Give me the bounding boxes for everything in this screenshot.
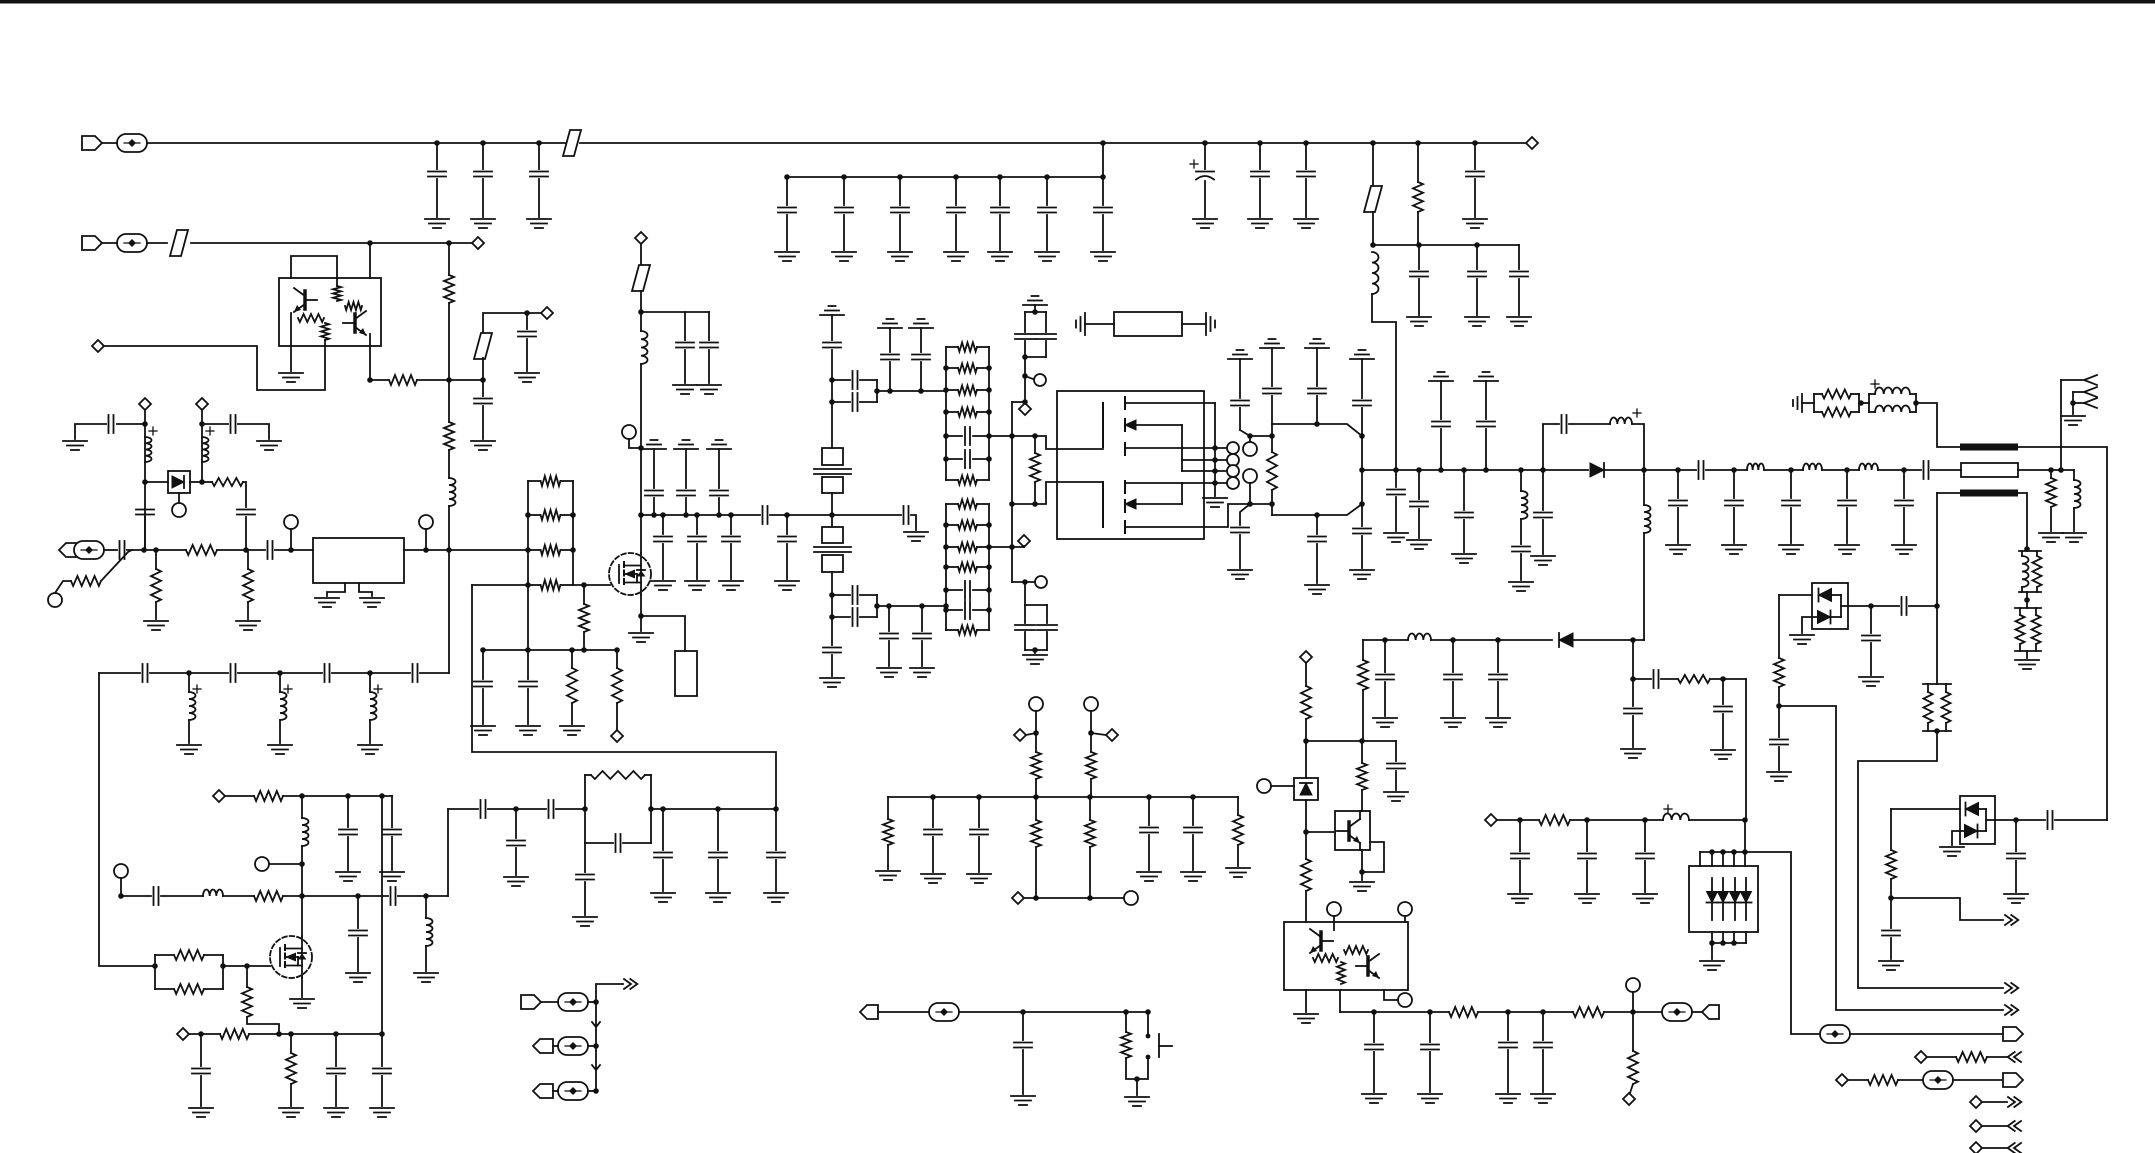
testpoint TP4 <box>929 1003 959 1021</box>
node diamond 202 <box>196 398 208 410</box>
resistor R-888 <box>883 819 893 845</box>
wireN a <box>640 244 642 265</box>
node rail2 diamond <box>472 237 484 249</box>
junction 302-864 <box>299 861 305 867</box>
node diamond 1976b <box>1970 1120 1982 1132</box>
wire 1036 stem t <box>1035 711 1037 752</box>
wire bus673 <box>99 672 140 674</box>
wire riser to cap bus <box>1102 143 1104 177</box>
inductor L-bypass <box>1610 417 1632 424</box>
wireZ 1374 stem <box>1373 1012 1375 1042</box>
junction 1012-436 <box>1009 433 1015 439</box>
resistor R-449b <box>444 422 454 450</box>
junction lad2l in 606 <box>943 603 949 609</box>
wire 1791 stem <box>1790 470 1792 498</box>
ground C-1023 <box>1011 1096 1035 1105</box>
wire bus470 b1 <box>1604 469 1696 471</box>
wireU c <box>1778 687 1780 737</box>
junction lad1r 515 <box>570 512 576 518</box>
wireAA 1046 <box>588 1045 596 1047</box>
ground C-1374 <box>1362 1094 1386 1103</box>
ground below C-pol-1205 <box>1193 219 1217 228</box>
junction lad2lR 547 <box>986 544 992 550</box>
wire bypass b <box>1569 423 1610 425</box>
U4 channel seg 521 <box>1124 521 1126 533</box>
capacitor C-1734 <box>1725 501 1743 506</box>
wireT b <box>1936 606 1938 684</box>
terminal circle 426 <box>419 515 433 529</box>
ground C-1464 <box>1452 554 1476 563</box>
component F-box <box>675 651 697 696</box>
connector tagA <box>860 1005 878 1019</box>
wireV 1385 gnd <box>1384 682 1386 716</box>
wire bypass c <box>1632 424 1644 470</box>
wire main f <box>404 549 449 551</box>
wireL 776 stem <box>775 809 777 850</box>
wireU d <box>1778 747 1780 770</box>
wireL 516 stem <box>515 809 517 838</box>
wireT d <box>2026 549 2028 551</box>
capacitor C-663 <box>654 853 672 858</box>
junction 1633-640 <box>1630 637 1636 643</box>
resistor R-1124 <box>1121 1032 1131 1058</box>
U4 mid tap 2 <box>1125 482 1182 484</box>
wire673 stem 370 <box>369 673 371 692</box>
wireL 718 gnd <box>717 860 719 891</box>
wireBB left gnd <box>887 845 889 869</box>
wire D1 circ <box>178 493 180 503</box>
junction 1543-1012 <box>1540 1009 1546 1015</box>
junction y380 x483 <box>480 377 486 383</box>
inductor L-1521 <box>1521 491 1528 519</box>
connector tagB <box>1702 1005 1719 1019</box>
wire 584 down <box>583 585 585 604</box>
wireEE pin 1734 <box>1733 852 1735 866</box>
ground below C-bus-787 <box>775 252 799 261</box>
junction 1317-424 <box>1314 421 1320 427</box>
inductor L-302 <box>302 818 309 846</box>
ground R-248 <box>236 621 260 630</box>
wireFF h <box>2055 819 2107 821</box>
resistor R-U5a <box>1313 954 1338 962</box>
resistor R-lad2u-480 <box>946 476 989 485</box>
wireO pairtop2 <box>860 379 877 381</box>
wireCC <box>1024 897 1124 899</box>
resistor R-BB-1036 <box>1031 820 1041 847</box>
wireV l <box>1362 690 1364 741</box>
ground C-650-528 <box>516 726 540 735</box>
resistor R-out <box>1267 452 1277 490</box>
wire capbus stem x1047 <box>1046 177 1048 205</box>
capacitor C-1779 <box>1770 740 1788 745</box>
junction 1385-640 <box>1382 637 1388 643</box>
wireFF a <box>1891 808 1960 810</box>
U4 channel seg 500 <box>1124 500 1126 512</box>
junction H right <box>220 963 226 969</box>
wireO 889 gnd <box>888 641 890 666</box>
junction top rail x1103 <box>1100 140 1106 146</box>
junction top rail x1475 <box>1472 140 1478 146</box>
junction K-201 <box>198 1031 204 1037</box>
capacitor C-718 <box>709 853 727 858</box>
capacitor C-483 <box>474 399 492 404</box>
wireL d <box>651 808 776 810</box>
wireO pairbot2 <box>860 401 877 403</box>
junction lad2uR 436 <box>986 433 992 439</box>
resistor R-1633 <box>1628 1051 1638 1084</box>
wire 1791 gnd <box>1790 508 1792 543</box>
resistor R-lad2l-567 <box>946 563 989 572</box>
junction main x426 <box>423 547 429 553</box>
diode D1 <box>172 476 184 488</box>
capacitor C-L-483 <box>481 800 486 818</box>
plus L-370 <box>374 685 382 693</box>
resistor R-291 <box>286 1053 296 1084</box>
crystal X3 lower <box>814 527 851 572</box>
wireO pair2bot2 <box>860 616 877 618</box>
wire 1734 gnd <box>1733 508 1735 543</box>
junction top rail x1373 <box>1370 140 1376 146</box>
ground-top 921 <box>909 319 933 328</box>
capacitor C-ser-1701 <box>1699 461 1704 479</box>
plus L-189 <box>193 685 201 693</box>
terminal circle 1091t <box>1084 697 1098 711</box>
connector J1 tag <box>82 136 102 150</box>
ground C-515d-663 <box>651 581 675 590</box>
ground C-BB-1193 <box>1181 872 1205 881</box>
diode D1 box <box>168 471 190 493</box>
wireGG4 <box>1982 1125 2007 1127</box>
node diamond 1921 <box>1915 1051 1927 1063</box>
wire449 b <box>448 303 450 380</box>
wireAA rail <box>595 1002 597 1091</box>
wire R riser upper <box>1417 143 1419 182</box>
wire lad2l right rail <box>988 504 990 630</box>
junction 1396-470 <box>1393 467 1399 473</box>
node diamond 183 <box>177 1028 189 1040</box>
winding W1 turn 1 <box>1227 442 1239 454</box>
ground C-718 <box>706 893 730 902</box>
wireI 358 stem <box>357 896 359 928</box>
node diamond 1018 <box>1012 892 1024 904</box>
zener D5 <box>1300 783 1312 795</box>
wire 1521 stem2 <box>1520 519 1522 544</box>
wireI 426 stem <box>425 896 427 918</box>
resistor R-1362b <box>1357 763 1367 790</box>
testpoint TPL2 <box>558 1037 588 1055</box>
junction 1779-706 <box>1776 703 1782 709</box>
junction L-718 <box>715 806 721 812</box>
wire bus470 a <box>1362 469 1588 471</box>
junction EE 1723 <box>1720 849 1726 855</box>
wire cp v1 <box>1024 312 1026 332</box>
resistor pair RP3 <box>2015 608 2041 651</box>
capacitor C-1260 <box>1251 172 1269 177</box>
wireZ 1023 stem <box>1022 1012 1024 1040</box>
wire to gnd x1260 <box>1259 179 1261 217</box>
wire gt 1240 b <box>1239 408 1241 430</box>
capacitor C-527 <box>518 332 536 337</box>
wireI d2 <box>398 895 448 897</box>
wire cp v4 <box>1045 341 1047 357</box>
wire 1240 gnd <box>1239 535 1241 568</box>
capacitor C-cpB <box>1036 334 1056 339</box>
junction U4w 471 <box>1212 468 1218 474</box>
capacitor C-1508 <box>1499 1043 1517 1048</box>
wireV 1498 gnd <box>1497 682 1499 716</box>
resistor R-gate <box>1030 453 1040 482</box>
diode D7b <box>1965 825 1978 838</box>
wire 1317 gnd <box>1316 544 1318 583</box>
wire 2074 down <box>2073 470 2075 480</box>
rail chevron 2 <box>592 1065 600 1070</box>
inductor L-1803 <box>1803 463 1822 470</box>
transistor Q-U2a <box>294 288 317 312</box>
wireGG1 b <box>1987 1056 2007 1058</box>
wireS e <box>1937 492 1960 494</box>
junction 832-617 <box>829 614 835 620</box>
ground C-392 <box>380 872 404 881</box>
junction 1023-1012 <box>1020 1009 1026 1015</box>
polarized capacitor C-pol-1205 <box>1196 172 1214 180</box>
junction 2061-470 <box>2058 467 2064 473</box>
wire capbus cap to gnd x844 <box>843 215 845 250</box>
wire650 572 gnd <box>571 703 573 724</box>
junction L-663 <box>660 806 666 812</box>
wireAA 1002 <box>588 1001 596 1003</box>
wireBB left down <box>887 797 889 819</box>
wire202 res <box>202 481 212 483</box>
capacitor C-245-1477 <box>1468 272 1486 277</box>
wire gate res bot <box>1034 482 1036 504</box>
connector J3 tag <box>59 543 79 557</box>
capacitor C-ser-1926 <box>1924 461 1929 479</box>
testpoint TP3 <box>74 541 104 559</box>
resistor R-1036t <box>1031 752 1041 779</box>
wire 1250-504 diag2 <box>1240 504 1250 525</box>
diode D6-1723 anode <box>1722 878 1724 891</box>
fuse F2 on top rail <box>563 130 581 156</box>
wire bus470 b4 <box>1822 469 1859 471</box>
ground U2 pin <box>279 373 303 382</box>
capacitor C-776 <box>767 853 785 858</box>
terminal circle 291 <box>284 515 298 529</box>
U4 winding line2 <box>1182 459 1226 461</box>
junction 877-391 <box>874 388 880 394</box>
wire 2051 stem <box>2050 470 2052 478</box>
junction 641-515 <box>638 512 644 518</box>
junction gate 247 <box>244 963 250 969</box>
junction I-302 <box>299 893 305 899</box>
plus LP1 <box>1871 380 1879 388</box>
wire y380 a <box>370 379 389 381</box>
junction 527 <box>524 310 530 316</box>
wire capbus cap to gnd x900 <box>899 215 901 250</box>
capacitor C-515d-731 <box>722 537 740 542</box>
wire L to corner <box>1372 294 1396 470</box>
junction EE-b 1723 <box>1720 940 1726 946</box>
capacitor C-bus-1000 <box>991 208 1009 213</box>
ferrite bead FB2 <box>474 333 492 359</box>
ground L-2074 <box>2062 533 2086 542</box>
capacitor C-pair3 <box>853 586 858 604</box>
wireO pairtop <box>832 379 850 381</box>
wire650 483 gnd <box>482 689 484 724</box>
wire202 b <box>243 482 246 507</box>
capacitor C-424L <box>109 415 114 433</box>
capacitor C-1645 <box>1636 854 1654 859</box>
wire cap424R b <box>238 424 269 439</box>
wireL 776 gnd <box>775 860 777 891</box>
resistor R-lad2l-547 <box>946 543 989 552</box>
ground C-1419b <box>1407 540 1431 549</box>
ground C-889 <box>877 668 901 677</box>
wire top rail to right end <box>580 142 1526 144</box>
wireFF d <box>1890 898 1892 928</box>
junction 1362-504 <box>1359 501 1365 507</box>
resistor R-main-186 <box>186 545 217 555</box>
resistor R-lad1-4 <box>528 580 573 590</box>
junction lad2uL 436 <box>943 433 949 439</box>
junction cap bus x1103 <box>1100 174 1106 180</box>
ground below C-1260 <box>1248 219 1272 228</box>
wireI b <box>161 895 203 897</box>
wireBB 933 gnd <box>932 837 934 872</box>
wire opto loop top <box>291 256 337 286</box>
wireV 1723 stem <box>1722 679 1724 704</box>
diode D6-1712 <box>1707 892 1718 903</box>
wireZ 1374 gnd <box>1373 1052 1375 1092</box>
junction BB 1090 <box>1087 794 1093 800</box>
node diamond 547 <box>541 307 553 319</box>
wire gt 1272 b <box>1271 396 1273 424</box>
wireV j <box>1632 716 1634 747</box>
testpoint TP7 <box>1923 1071 1953 1089</box>
junction 1871-606 <box>1868 603 1874 609</box>
wireN 709 gnd <box>708 350 710 383</box>
wire bus245 end corner <box>1518 245 1520 269</box>
chassis ground left <box>1076 313 1085 335</box>
wire cp v2 <box>1045 312 1047 332</box>
ground SW1 <box>1125 1097 1149 1106</box>
wireO d <box>831 572 833 645</box>
wireEE bus852 <box>1700 851 1745 853</box>
wireU a <box>1779 594 1812 596</box>
capacitor C-1396b <box>1387 764 1405 769</box>
wireZ sw a <box>1125 1012 1127 1032</box>
ground C-1430 <box>1418 1094 1442 1103</box>
wireL box top a <box>585 774 591 776</box>
wireI c <box>223 895 254 897</box>
wireBB 1238 gnd <box>1237 845 1239 866</box>
wire low pair in <box>1012 581 1035 583</box>
junction 1362-436 <box>1359 433 1365 439</box>
wire 1362 mid <box>1361 436 1363 504</box>
junction lad1 585 <box>525 582 531 588</box>
wireZ c <box>1340 1011 1449 1013</box>
wire cap bus y177 <box>787 176 1103 178</box>
winding W1 turn 4 <box>1227 477 1239 489</box>
junction 1317-515 <box>1314 512 1320 518</box>
wireO 922 gnd <box>921 641 923 666</box>
wire y515 dn 787 <box>786 515 788 534</box>
inductor L-673-370 <box>370 692 377 720</box>
terminal circle 1036t <box>1029 697 1043 711</box>
wireBB 1149 gnd <box>1148 835 1150 870</box>
wireN drain <box>640 448 642 553</box>
wire 1543 stem <box>1542 470 1544 510</box>
wireW base <box>1306 831 1335 833</box>
ground C-424R <box>257 441 281 450</box>
junction AA 1002 <box>593 999 599 1005</box>
wire gt 1240 a <box>1239 359 1241 398</box>
wireX loop <box>1362 842 1384 872</box>
wire stem245 x1419 <box>1418 245 1420 269</box>
junction 1520-820 <box>1517 817 1523 823</box>
wireL box top b <box>645 774 651 776</box>
capacitor C-pair4 <box>853 608 858 626</box>
junction 2027-549 <box>2024 546 2030 552</box>
inductor L-V <box>1408 633 1431 640</box>
junction lp bottom <box>1032 647 1038 653</box>
wire capbus stem x1000 <box>999 177 1001 205</box>
wireJ a <box>225 795 254 797</box>
wire c to gnd2 <box>1476 279 1478 315</box>
chevron in 1057 <box>2008 1052 2021 1062</box>
wireU i <box>1909 605 1937 607</box>
wireL 663 stem <box>662 809 664 850</box>
wire rail2 a <box>102 242 117 244</box>
junction lad2lL 547 <box>943 544 949 550</box>
junction 1508-1012 <box>1505 1009 1511 1015</box>
wireW d <box>1305 891 1307 922</box>
junction lad2lR 525 <box>986 522 992 528</box>
wireO pair2top <box>832 594 850 596</box>
capacitor C-424R <box>231 415 236 433</box>
diode D3a <box>1819 589 1832 602</box>
wireBB 1149 stem <box>1148 797 1150 825</box>
wire bus673 e <box>420 672 449 674</box>
ground C-1723 <box>1711 750 1735 759</box>
capacitor C-series-270 <box>268 541 273 559</box>
junction cap bus x1000 <box>997 174 1003 180</box>
ground C-1240d <box>1228 570 1252 579</box>
wireBB 1193 stem <box>1192 797 1194 825</box>
wire 2074 gnd <box>2073 508 2075 531</box>
wire C-pol to gnd <box>1204 181 1206 217</box>
diode D6-1746 <box>1741 892 1752 903</box>
connector tagC right <box>521 995 541 1009</box>
testpoint TP6 <box>1820 1025 1850 1043</box>
wireZ 1543 gnd <box>1542 1050 1544 1092</box>
wire H right bar <box>222 955 224 989</box>
terminal circle 262 <box>255 857 269 871</box>
wire capbus stem x956 <box>955 177 957 205</box>
wire lad2u right rail <box>988 347 990 480</box>
capacitor C-1453 <box>1444 675 1462 680</box>
junction y380 x449 <box>446 377 452 383</box>
resistor R-248 <box>243 569 253 602</box>
junction bus245 x1477 <box>1474 242 1480 248</box>
junction cap bus x787 <box>784 174 790 180</box>
wireN 685 gnd <box>684 350 686 383</box>
junction 1012-504 <box>1009 501 1015 507</box>
wireY c <box>1384 990 1398 1000</box>
terminal circle 121 <box>114 864 128 878</box>
wireT e <box>2026 592 2028 608</box>
wireEE gnd stem <box>1711 943 1713 959</box>
junction 145-482 <box>142 479 148 485</box>
